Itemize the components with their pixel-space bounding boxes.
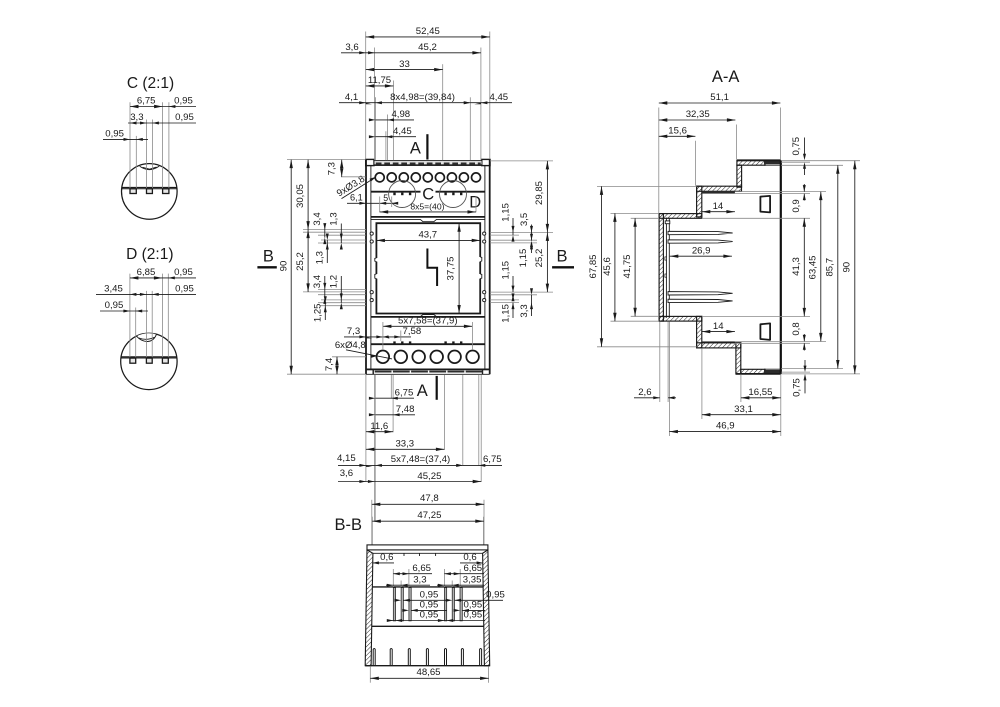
hatched top cap left wall xyxy=(737,165,742,187)
svg-text:0,75: 0,75 xyxy=(791,137,802,156)
dim 1,15 c xyxy=(512,276,514,292)
dim 2,6 xyxy=(634,397,660,399)
detail C chord lines xyxy=(122,187,177,189)
detail D boundary circle xyxy=(440,181,467,208)
top inner lip dark line xyxy=(702,192,735,194)
dim 33 xyxy=(366,69,443,71)
svg-text:3,3: 3,3 xyxy=(519,304,530,317)
detail C pin 3 xyxy=(163,189,169,194)
svg-text:0,95: 0,95 xyxy=(464,610,483,621)
dim 45,2 xyxy=(375,52,481,54)
contact prong 2 xyxy=(668,240,733,243)
svg-text:A: A xyxy=(417,382,428,400)
hatched floor band xyxy=(741,369,765,374)
svg-text:0,75: 0,75 xyxy=(791,378,802,397)
dim 15,6 xyxy=(659,135,696,137)
svg-text:A: A xyxy=(410,139,421,157)
svg-text:7,4: 7,4 xyxy=(324,357,335,371)
svg-text:D: D xyxy=(469,194,481,212)
bottom extension lines xyxy=(660,322,781,437)
dim 8x5=(40) xyxy=(380,211,476,213)
svg-text:29,85: 29,85 xyxy=(534,181,545,205)
bottom terminal strip top line xyxy=(371,343,485,345)
bottom strip lower line xyxy=(367,368,490,370)
svg-text:0,8: 0,8 xyxy=(791,322,802,335)
svg-text:3,45: 3,45 xyxy=(104,283,123,294)
svg-text:1,3: 1,3 xyxy=(329,212,340,225)
dim 3,6 top xyxy=(341,52,375,54)
hatched bottom shelf xyxy=(659,316,702,321)
svg-text:4,98: 4,98 xyxy=(391,109,410,120)
dim 0,95 detail C row1 xyxy=(163,106,196,108)
svg-text:85,7: 85,7 xyxy=(824,258,835,277)
right extension lines xyxy=(702,161,860,374)
svg-text:6,65: 6,65 xyxy=(412,563,431,574)
svg-text:63,45: 63,45 xyxy=(807,255,818,279)
svg-text:67,85: 67,85 xyxy=(588,254,599,278)
svg-text:51,1: 51,1 xyxy=(710,92,729,103)
svg-text:3,3: 3,3 xyxy=(413,574,426,585)
svg-text:11,6: 11,6 xyxy=(370,421,388,432)
svg-text:32,35: 32,35 xyxy=(686,109,710,120)
9 terminal screw holes 9xO3.8 xyxy=(375,173,480,182)
svg-text:0,95: 0,95 xyxy=(175,112,194,123)
dim 16,55 xyxy=(741,397,781,399)
top edge xyxy=(737,159,781,161)
svg-text:B-B: B-B xyxy=(334,516,362,534)
svg-text:6xØ4,8: 6xØ4,8 xyxy=(335,340,366,351)
B-B left hatched wall xyxy=(365,550,373,666)
detail D boundary circle xyxy=(121,333,177,389)
svg-text:3,6: 3,6 xyxy=(345,42,358,53)
pin marks group D xyxy=(444,193,446,196)
B-B pins left group xyxy=(393,588,462,621)
inner wall tick 1 xyxy=(665,257,667,260)
detail D extension lines xyxy=(130,274,168,358)
svg-text:1,2: 1,2 xyxy=(329,275,340,288)
dim 5x7,58=(37,9) xyxy=(383,325,473,327)
pin marks group C xyxy=(393,193,462,196)
small clamp circles right xyxy=(483,232,486,235)
marking field left notches xyxy=(375,258,377,279)
mid upper separator thin with center notch xyxy=(371,219,485,221)
svg-text:48,65: 48,65 xyxy=(416,667,440,678)
inner wall top block xyxy=(665,221,670,224)
dim 45,6 xyxy=(614,213,616,321)
svg-text:52,45: 52,45 xyxy=(416,26,440,37)
dim 7,4 xyxy=(336,357,338,374)
dim 85,7 xyxy=(837,165,839,368)
hatched step1 vertical wall xyxy=(697,186,702,217)
mid lower separator thick with center notch xyxy=(371,316,485,318)
dim 1,3 lower xyxy=(326,240,328,263)
B-B pins right group xyxy=(444,588,446,621)
top extension lines xyxy=(659,108,781,214)
svg-text:90: 90 xyxy=(842,262,853,273)
svg-text:16,55: 16,55 xyxy=(748,387,772,398)
top band lower edge xyxy=(366,165,490,167)
svg-text:1,25: 1,25 xyxy=(313,303,324,322)
dim 45,25 xyxy=(374,481,481,483)
dim 5x7,48=(37,4) xyxy=(375,464,462,467)
hatched step1 horizontal band xyxy=(697,186,742,191)
dim 6,1 xyxy=(347,202,397,204)
marking field rectangle xyxy=(376,223,480,313)
svg-text:4,45: 4,45 xyxy=(393,126,412,137)
svg-text:14: 14 xyxy=(713,201,724,212)
placeholder groups filled in by editor xyxy=(366,159,490,374)
dim 3,6 bottom xyxy=(338,481,374,483)
svg-text:6,65: 6,65 xyxy=(463,563,482,574)
enclosure inner right wall xyxy=(484,166,486,370)
dim 1,25 xyxy=(324,303,326,320)
svg-text:0,95: 0,95 xyxy=(105,300,124,311)
dim 48,65 xyxy=(370,677,488,679)
contact prong 3 xyxy=(668,292,733,295)
top-left corner block xyxy=(366,159,374,165)
dim 3,4 upper xyxy=(324,224,326,238)
dim 0,95 row3 xyxy=(388,620,447,622)
dim 0,95 detail D row1 xyxy=(162,277,196,279)
dim 6,65 right xyxy=(444,573,484,575)
dim 51,1 xyxy=(659,102,781,104)
section line A top stub xyxy=(426,134,428,159)
dim 3,35 bb xyxy=(437,584,484,586)
svg-text:30,05: 30,05 xyxy=(295,184,306,208)
dim 6,65 left xyxy=(393,573,432,575)
dim 33,1 xyxy=(702,414,781,416)
dim 11,6 xyxy=(366,431,393,433)
svg-text:2,6: 2,6 xyxy=(638,387,651,398)
bottom inner lip dark line xyxy=(702,341,735,343)
svg-text:0,95: 0,95 xyxy=(175,283,194,294)
svg-text:15,6: 15,6 xyxy=(668,126,687,137)
svg-text:1,15: 1,15 xyxy=(518,249,529,268)
svg-text:0,95: 0,95 xyxy=(174,95,193,106)
detail C top notch xyxy=(140,164,160,166)
svg-text:3,35: 3,35 xyxy=(463,574,482,585)
6 terminal holes 6xO4.8 xyxy=(377,351,479,364)
svg-text:8x4,98=(39,84): 8x4,98=(39,84) xyxy=(390,92,455,103)
svg-text:45,25: 45,25 xyxy=(417,471,441,482)
detail D pin 3 xyxy=(162,358,168,363)
svg-text:B: B xyxy=(556,248,567,266)
dim 6,75 bottom right xyxy=(463,464,502,466)
detail C pin 2 xyxy=(147,189,153,194)
section line A bottom stub xyxy=(436,376,438,400)
svg-text:14: 14 xyxy=(713,321,724,332)
svg-text:1,15: 1,15 xyxy=(501,304,512,323)
dim 14 top xyxy=(702,211,735,213)
dim 0,8 xyxy=(803,334,805,341)
svg-text:0,95: 0,95 xyxy=(105,128,124,139)
svg-text:4,45: 4,45 xyxy=(489,92,508,103)
svg-text:6,85: 6,85 xyxy=(137,267,156,278)
svg-text:3,6: 3,6 xyxy=(340,468,353,479)
svg-text:26,9: 26,9 xyxy=(692,245,711,256)
detail D pin 2 xyxy=(146,358,152,363)
bottom edge xyxy=(736,373,781,375)
svg-text:1,15: 1,15 xyxy=(501,261,512,280)
pin extension verticals xyxy=(393,569,460,587)
dim 90 xyxy=(290,160,292,375)
front face line xyxy=(780,160,782,374)
svg-text:45,6: 45,6 xyxy=(602,257,613,276)
svg-text:0,95: 0,95 xyxy=(174,267,193,278)
top serrated vent band xyxy=(374,161,482,165)
dim 7,48 xyxy=(375,414,415,416)
detail C pin 1 xyxy=(130,189,136,194)
dim 0,95 row1 xyxy=(403,599,447,601)
small clamp circles left xyxy=(370,232,486,302)
dim 6,75 detail C xyxy=(130,106,163,108)
left inner wall double line xyxy=(665,218,667,318)
dim 3,3 bb xyxy=(386,584,430,586)
dim 1,3 upper xyxy=(340,224,342,244)
svg-text:3,4: 3,4 xyxy=(312,274,323,288)
section line jog in marking field xyxy=(427,249,437,287)
dim 0,9 and 41,3 and 0,8 column xyxy=(803,184,805,192)
dim 30,05 xyxy=(307,160,309,230)
dim 4,15 xyxy=(338,464,375,466)
svg-text:3,4: 3,4 xyxy=(312,212,323,226)
detail D chord lines xyxy=(121,356,177,358)
svg-text:25,2: 25,2 xyxy=(295,252,306,271)
bottom-left corner block xyxy=(367,369,373,374)
enclosure inner left wall xyxy=(370,166,372,370)
dim 67,85 xyxy=(601,186,603,346)
dim 46,9 xyxy=(669,431,780,433)
svg-text:25,2: 25,2 xyxy=(534,249,545,268)
leader 6xO4,8 xyxy=(346,350,392,359)
hatched left outer wall xyxy=(659,214,663,322)
dim 6,75 bottom xyxy=(375,397,414,399)
ext lines from B-B cap to 47,8/47,25 dims xyxy=(372,500,484,545)
svg-text:47,8: 47,8 xyxy=(420,493,439,504)
top clip hole xyxy=(760,196,770,213)
dim 25,2 right xyxy=(546,232,548,292)
bottom pin marks group left xyxy=(393,341,462,344)
detail D top notch xyxy=(137,333,157,336)
roof recessed dark band xyxy=(764,161,781,164)
B-B right hatched wall xyxy=(483,550,490,666)
svg-text:46,9: 46,9 xyxy=(716,420,735,431)
svg-text:5x7,48=(37,4): 5x7,48=(37,4) xyxy=(391,454,450,465)
svg-text:5x7,58=(37,9): 5x7,58=(37,9) xyxy=(398,316,457,327)
dim 26,9 xyxy=(670,255,732,257)
dim 11,75 xyxy=(366,85,394,87)
inner wall tick 2 xyxy=(665,274,667,277)
svg-text:6,1: 6,1 xyxy=(350,193,363,203)
svg-text:37,75: 37,75 xyxy=(445,256,456,280)
dim 33,3 xyxy=(366,448,445,450)
svg-text:0,6: 0,6 xyxy=(380,552,393,563)
dim 8x4,98=(39,84) xyxy=(375,102,470,104)
ext bottom pins xyxy=(382,322,384,350)
dim 3,4 lower xyxy=(324,276,326,297)
label C xyxy=(421,187,436,201)
B-B bottom comb slots xyxy=(373,649,481,666)
ext lines for 48,65 xyxy=(369,666,371,683)
bottom foot band xyxy=(366,373,490,375)
B-B top cap xyxy=(367,545,488,550)
marking field right notches xyxy=(480,257,482,279)
dim 90 right xyxy=(854,161,856,374)
dim 4,98 xyxy=(375,119,414,121)
detail D pin 1 xyxy=(130,358,136,363)
dim 4,45 right xyxy=(470,102,512,104)
svg-text:A-A: A-A xyxy=(712,68,740,86)
svg-text:6,75: 6,75 xyxy=(395,388,414,399)
enclosure outer left wall xyxy=(365,159,367,374)
dim 7,3 bottom / 7,58 xyxy=(344,336,411,338)
dim 3,3 detail C xyxy=(128,122,196,124)
dim 0,6 left xyxy=(372,562,394,564)
B-B pin shelf line xyxy=(372,586,483,588)
left side extension lines cluster 1 xyxy=(287,160,366,375)
dim 3,5 xyxy=(531,225,533,241)
dim 0,6 right xyxy=(460,562,483,564)
svg-text:43,7: 43,7 xyxy=(418,230,437,241)
hatched bottom cap wall xyxy=(736,343,741,374)
extension lines below front view xyxy=(366,375,481,482)
dim 14 bottom xyxy=(702,331,735,333)
top-right corner block xyxy=(482,159,490,165)
B-B bottom line xyxy=(365,665,490,667)
dim 4,45 xyxy=(375,136,416,138)
dim 1,15 a xyxy=(512,218,514,235)
dim 63,45 xyxy=(820,192,822,342)
svg-text:45,2: 45,2 xyxy=(418,42,437,53)
svg-text:41,75: 41,75 xyxy=(622,254,633,278)
dim 3,3 right xyxy=(531,295,533,316)
svg-text:33,3: 33,3 xyxy=(395,439,414,450)
hatched bottom step wall xyxy=(697,316,702,348)
svg-text:0,95: 0,95 xyxy=(486,590,505,601)
svg-text:4,15: 4,15 xyxy=(337,453,356,464)
top section divider line xyxy=(371,191,485,193)
dim 3,45 detail D xyxy=(96,293,196,295)
dim 41,75 xyxy=(634,218,636,316)
svg-text:0,9: 0,9 xyxy=(791,199,802,212)
contact prong 1 xyxy=(668,231,733,234)
detail C extension lines xyxy=(130,102,169,188)
svg-text:33,1: 33,1 xyxy=(734,404,753,415)
svg-text:1,3: 1,3 xyxy=(315,251,326,264)
right side extension lines xyxy=(490,161,553,303)
svg-text:5: 5 xyxy=(383,193,388,203)
contact prong 4 xyxy=(668,299,733,302)
svg-text:33: 33 xyxy=(399,59,410,70)
dim 4,1 xyxy=(339,102,375,104)
dim 7,3 top left xyxy=(341,160,343,177)
dim 0,95 detail D row3 xyxy=(100,310,148,312)
dim 25,2 left xyxy=(307,230,309,292)
dim 0,75 top xyxy=(804,138,806,157)
leader 9xO3,8 xyxy=(342,178,376,199)
dim 47,25 xyxy=(372,520,484,522)
dim 0,95 detail C row3 xyxy=(103,138,148,140)
svg-text:3,5: 3,5 xyxy=(519,213,530,226)
dim 1,2 xyxy=(340,276,342,303)
hatched din shelf top xyxy=(659,214,702,219)
svg-text:11,75: 11,75 xyxy=(368,75,391,86)
svg-text:0,95: 0,95 xyxy=(420,610,439,621)
svg-text:1,15: 1,15 xyxy=(501,203,512,222)
svg-text:4,1: 4,1 xyxy=(345,92,358,103)
dim 0,75 bottom xyxy=(804,360,806,368)
svg-text:B: B xyxy=(263,248,274,266)
hatched roof band xyxy=(737,161,765,166)
dim 0,95 row2 xyxy=(411,609,447,611)
dim 47,8 xyxy=(372,503,484,505)
svg-text:7,48: 7,48 xyxy=(396,404,415,415)
bottom clip hole xyxy=(760,323,770,340)
dim 29,85 xyxy=(546,161,548,233)
floor recessed dark band xyxy=(764,370,781,373)
svg-text:7,3: 7,3 xyxy=(327,162,338,175)
svg-text:7,58: 7,58 xyxy=(403,326,422,337)
bottom pin marks group right xyxy=(444,341,446,344)
detail C boundary circle xyxy=(122,164,178,220)
B-B inner top line with ticks xyxy=(373,552,483,554)
dim 1,15 d xyxy=(512,303,514,318)
dim 37,75 xyxy=(458,223,460,313)
svg-text:6,75: 6,75 xyxy=(483,454,502,465)
dim 52,45 xyxy=(366,36,490,38)
left extension lines xyxy=(597,186,697,346)
extension lines above front view xyxy=(366,32,490,161)
enclosure outer right wall xyxy=(489,159,491,374)
B-B lower shelf line xyxy=(372,625,484,627)
svg-text:47,25: 47,25 xyxy=(417,510,441,521)
detail C boundary circle xyxy=(389,181,416,208)
svg-text:7,3: 7,3 xyxy=(347,326,360,337)
svg-text:3,3: 3,3 xyxy=(130,112,143,123)
ext circle centers top xyxy=(379,197,381,213)
svg-text:6,75: 6,75 xyxy=(137,95,156,106)
dim 6,85 detail D xyxy=(130,277,163,279)
svg-text:C (2:1): C (2:1) xyxy=(127,75,174,92)
dim 43,7 xyxy=(376,239,480,241)
svg-text:90: 90 xyxy=(278,261,289,272)
svg-text:D (2:1): D (2:1) xyxy=(126,246,173,263)
svg-text:8x5=(40): 8x5=(40) xyxy=(410,201,444,211)
hatched bottom horizontal band xyxy=(697,343,741,348)
svg-text:41,3: 41,3 xyxy=(791,257,802,276)
dim 32,35 xyxy=(659,119,736,121)
mid upper separator thick xyxy=(371,216,485,218)
dim 41,3 xyxy=(803,218,805,316)
svg-text:0,6: 0,6 xyxy=(463,552,476,563)
bottom-right corner block xyxy=(483,369,489,374)
dim 1,15 b xyxy=(531,243,533,253)
